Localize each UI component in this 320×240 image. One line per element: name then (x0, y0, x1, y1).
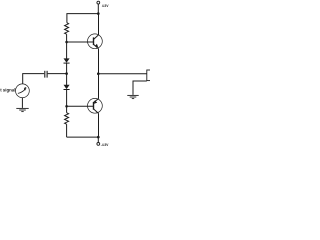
node bottom junction (97, 136, 100, 139)
wire load to ground (133, 81, 147, 95)
node coupling junction (65, 72, 68, 75)
source V1 (AC signal) (16, 84, 30, 98)
node output junction (97, 72, 100, 75)
transistor Q2 (PNP) (88, 74, 103, 137)
wire base of Q2 (67, 105, 94, 107)
node PNP base junction (65, 105, 68, 108)
resistor R2 (65, 106, 69, 137)
label input signal (0, 88, 15, 93)
diode D2 (64, 74, 70, 107)
diode D1 (64, 58, 70, 73)
power terminal -4.5V (97, 137, 100, 145)
wire bottom rail (67, 136, 99, 138)
load box RL (147, 70, 152, 81)
svg-text:-4.5V: -4.5V (101, 143, 109, 147)
ground (source) (16, 108, 28, 111)
resistor R1 (65, 23, 69, 42)
capacitor C1 (45, 71, 47, 78)
wire source to ground (21, 98, 23, 108)
node top junction (97, 12, 100, 15)
svg-text:t signal: t signal (0, 88, 15, 93)
wire top rail (67, 14, 98, 23)
label -4.5V (101, 143, 109, 147)
ground (output) (127, 95, 138, 98)
wire input source to capacitor (23, 74, 45, 84)
node NPN base junction (65, 41, 68, 44)
wire output to load (98, 73, 147, 75)
svg-text:4.5V: 4.5V (102, 4, 109, 8)
transistor Q1 (NPN) (88, 14, 103, 74)
wire capacitor to rail (48, 73, 67, 75)
power terminal +4.5V (97, 1, 100, 13)
label 4.5V (102, 4, 109, 8)
wire D1 anode lead (66, 42, 68, 59)
wire base of Q1 (67, 41, 94, 43)
